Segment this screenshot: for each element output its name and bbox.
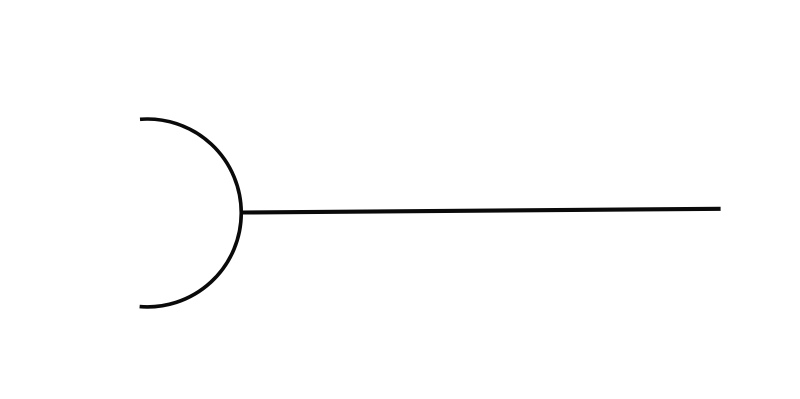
node A (open circle) — [140, 119, 242, 307]
wire — [242, 209, 721, 213]
